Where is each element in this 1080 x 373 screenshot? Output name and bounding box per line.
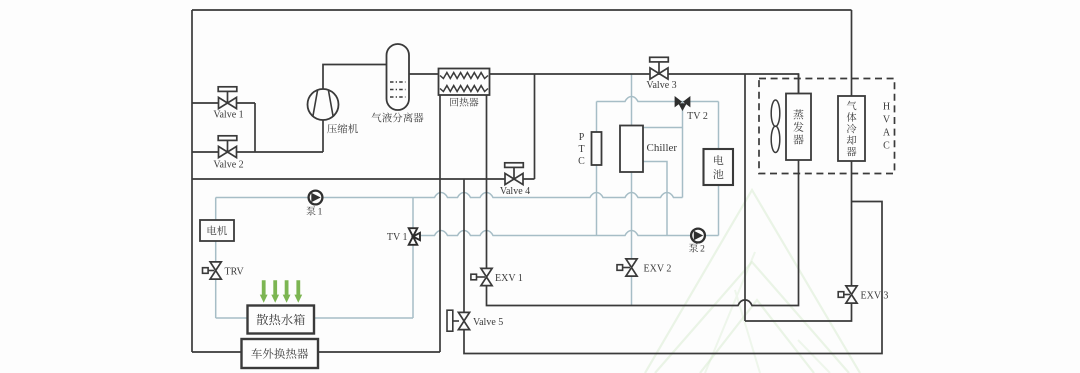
wire evaporator top riser bbox=[798, 74, 800, 94]
wire battery bottom riser bbox=[718, 185, 720, 236]
wire TV1 riser bbox=[412, 198, 414, 229]
valve EXV 2 bbox=[617, 259, 637, 276]
wire TV1 down to radiator line bbox=[412, 245, 414, 319]
svg-text:T: T bbox=[578, 144, 584, 155]
battery 电池 bbox=[704, 149, 734, 185]
wire bottom left line bbox=[192, 351, 440, 353]
pump 泵2 bbox=[691, 229, 705, 243]
label motor 电机 bbox=[208, 226, 227, 236]
valve TRV bbox=[203, 262, 222, 279]
svg-text:EXV 3: EXV 3 bbox=[861, 291, 889, 302]
wire battery top riser bbox=[718, 102, 720, 150]
label PTC bbox=[578, 132, 585, 167]
wire compressor suction riser bbox=[322, 120, 324, 152]
svg-text:TV 1: TV 1 bbox=[387, 232, 408, 243]
chiller bbox=[620, 126, 643, 173]
svg-text:H: H bbox=[883, 102, 890, 113]
valve Valve 2 bbox=[218, 136, 237, 158]
wire valve 2 line to compressor bbox=[192, 151, 323, 153]
label outside heat exchanger 车外换热器 bbox=[251, 348, 308, 359]
label EXV 3 bbox=[861, 291, 889, 302]
label recuperator 回热器 bbox=[450, 97, 478, 106]
wire radiator line bbox=[216, 317, 413, 319]
label EXV 2 bbox=[644, 263, 672, 274]
svg-text:V: V bbox=[883, 115, 891, 126]
wire PTC top riser bbox=[596, 102, 598, 133]
pump 泵1 bbox=[309, 191, 323, 205]
radiator tank 散热水箱 bbox=[248, 306, 315, 334]
wire chiller upper right port bbox=[643, 127, 683, 129]
svg-text:Valve 5: Valve 5 bbox=[473, 317, 503, 328]
label compressor 压缩机 bbox=[327, 124, 358, 134]
wire valve 4 riser bbox=[534, 74, 536, 179]
label TV 1 bbox=[387, 232, 408, 243]
wire chiller top link (valve 3 line to chiller) bbox=[631, 74, 633, 126]
label Valve 5 bbox=[473, 317, 503, 328]
wire valve 1 branch bbox=[192, 102, 255, 104]
svg-text:2: 2 bbox=[700, 244, 705, 254]
svg-text:EXV 2: EXV 2 bbox=[644, 263, 672, 274]
wire coolant bus 1 (pump 1 to TV2 drop) bbox=[216, 193, 683, 198]
wire EXV 1 outlet line to evaporator bbox=[487, 160, 799, 306]
svg-text:1: 1 bbox=[318, 207, 323, 217]
svg-text:TV 2: TV 2 bbox=[687, 111, 708, 122]
wire gas cooler top riser bbox=[851, 10, 853, 96]
svg-text:Valve 3: Valve 3 bbox=[646, 80, 676, 91]
wire valve 1 drop bbox=[254, 103, 256, 152]
label separator 气液分离器 bbox=[372, 113, 424, 123]
wire chiller lower right port bbox=[643, 162, 667, 236]
valve Valve 4 bbox=[505, 163, 524, 185]
compressor bbox=[308, 89, 339, 120]
wire bottom right link bbox=[745, 303, 852, 321]
wire recuperator left drop bbox=[439, 95, 441, 352]
valve Valve 1 bbox=[218, 87, 237, 109]
wire gas cooler bottom drop to EXV 3 bbox=[851, 161, 853, 286]
wire TRV riser bbox=[215, 241, 217, 318]
wire chiller bottom drop to EXV 2 bbox=[631, 172, 633, 259]
wire valve 5 drop bbox=[463, 179, 465, 312]
label 泵1 bbox=[306, 206, 322, 217]
evaporator 蒸发器 bbox=[786, 94, 811, 161]
wire compressor discharge bbox=[323, 65, 387, 90]
wire TV2 bottom drop bbox=[682, 102, 684, 198]
svg-text:A: A bbox=[883, 128, 891, 139]
label gas cooler 气体冷却器 bbox=[847, 101, 857, 157]
svg-text:Valve 1: Valve 1 bbox=[213, 109, 243, 120]
label Valve 4 bbox=[500, 186, 530, 197]
valve EXV 3 bbox=[838, 286, 857, 303]
svg-text:EXV 1: EXV 1 bbox=[495, 273, 523, 284]
wire recuperator right drop to EXV 1 bbox=[486, 95, 488, 268]
wire separator to recuperator bbox=[409, 73, 439, 75]
wire outer top line bbox=[192, 9, 852, 11]
svg-text:C: C bbox=[578, 156, 585, 167]
motor 电机 bbox=[200, 220, 234, 241]
wire motor to pump 1 riser bbox=[215, 198, 217, 242]
wire valve 5 bottom loop bbox=[464, 202, 882, 354]
recuperator 回热器 bbox=[439, 69, 490, 96]
svg-text:Valve 4: Valve 4 bbox=[500, 186, 530, 197]
wire valve 3 line drop bbox=[744, 74, 746, 321]
label TV 2 bbox=[687, 111, 708, 122]
svg-text:TRV: TRV bbox=[225, 267, 245, 278]
watermark bbox=[645, 190, 860, 373]
green cooling air arrows bbox=[260, 280, 302, 303]
gas-liquid separator bbox=[387, 44, 410, 110]
HVAC dashed enclosure bbox=[759, 79, 895, 174]
label radiator tank 散热水箱 bbox=[257, 314, 305, 325]
valve TV 2 bbox=[675, 97, 690, 110]
label Valve 1 bbox=[213, 109, 243, 120]
label Valve 2 bbox=[213, 159, 243, 170]
label Chiller bbox=[647, 142, 678, 154]
wire PTC bottom drop bbox=[596, 165, 598, 236]
wire coolant bus 2 (TV1 to pump 2 / battery) bbox=[420, 231, 719, 236]
label Valve 3 bbox=[646, 80, 676, 91]
wire recuperator to valve 3 to HVAC bbox=[490, 74, 799, 94]
label EXV 1 bbox=[495, 273, 523, 284]
svg-text:P: P bbox=[579, 132, 585, 143]
label battery 电池 bbox=[713, 155, 723, 179]
valve Valve 3 bbox=[650, 57, 669, 79]
label evaporator 蒸发器 bbox=[793, 109, 803, 144]
PTC heater bbox=[592, 132, 602, 165]
HVAC fan bbox=[771, 100, 780, 153]
svg-text:Valve 2: Valve 2 bbox=[213, 159, 243, 170]
valve Valve 5 bbox=[447, 310, 470, 331]
outside heat exchanger 车外换热器 bbox=[242, 339, 319, 368]
wire outer left line bbox=[191, 10, 193, 352]
wire top coolant line (PTC top to TV2 to battery) bbox=[597, 97, 719, 102]
label HVAC bbox=[883, 102, 891, 152]
label TRV bbox=[225, 267, 245, 278]
label 泵2 bbox=[689, 243, 705, 254]
svg-text:Chiller: Chiller bbox=[647, 142, 678, 154]
gas cooler 气体冷却器 bbox=[838, 96, 865, 161]
wire valve 4 line bbox=[192, 178, 535, 180]
valve TV 1 bbox=[409, 228, 420, 245]
wire EXV 2 outlet bbox=[631, 277, 633, 306]
svg-text:C: C bbox=[883, 141, 890, 152]
valve EXV 1 bbox=[471, 268, 492, 285]
